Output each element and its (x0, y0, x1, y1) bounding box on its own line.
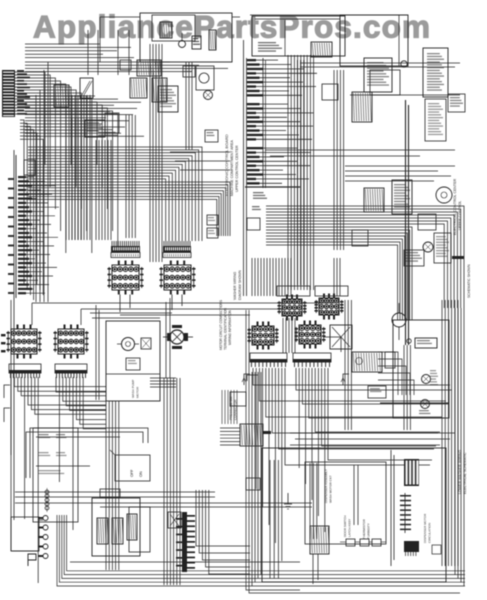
connector strip CN7 (9, 364, 41, 378)
connector CN3 pin block (108, 261, 144, 313)
svg-text:ELECTRONIC CONTROL BOARD: ELECTRONIC CONTROL BOARD (224, 134, 229, 196)
relay block G (168, 512, 195, 572)
element R3 hatched (127, 514, 137, 540)
motor M4 drain (392, 303, 406, 340)
connector CN5 pin block (7, 325, 42, 359)
svg-text:WASH MOTOR CKT: WASH MOTOR CKT (329, 475, 333, 503)
label E1 columns (324, 469, 371, 539)
wire nest BL top (26, 428, 148, 478)
svg-text:THERMISTOR: THERMISTOR (362, 518, 366, 539)
svg-text:MOTOR: MOTOR (136, 386, 140, 398)
box inner BR (262, 448, 446, 582)
svg-text:DISPENSER MOTOR: DISPENSER MOTOR (423, 513, 427, 543)
wire bundle BL mid verticals (106, 401, 119, 570)
box wash pump assembly (106, 321, 160, 401)
wire bundle TL mid horizontals (28, 147, 230, 241)
wire bundle TR vertical bus (288, 55, 314, 290)
wire bundle TL top horiz (25, 44, 228, 72)
wire loop nest BL (57, 515, 465, 586)
component D1 hatched (352, 352, 382, 372)
wire bus BR verticals2 (345, 100, 464, 430)
wire bundle BR drop1 (253, 368, 450, 561)
module D3 (415, 338, 438, 385)
module B8 (392, 180, 412, 214)
svg-text:AppliancePartsPros.com: AppliancePartsPros.com (33, 9, 430, 45)
wire bundle BL drop2 (56, 377, 106, 530)
label column P1 right (17, 70, 30, 115)
component F2 (100, 489, 120, 497)
component A4 hatched (152, 78, 167, 102)
wire staircase motor box (378, 352, 414, 395)
component A8 stack (207, 215, 218, 238)
component D4 (368, 386, 386, 398)
component D2 (385, 352, 395, 368)
switch S2 (80, 78, 93, 98)
label pump vertical (131, 380, 140, 398)
ladder E pins (400, 493, 411, 533)
motor M3 small (163, 325, 193, 349)
box control housing TL (140, 13, 232, 62)
module A1 (192, 36, 201, 49)
component E2 hatched (310, 526, 329, 554)
wire bundle TL box drops (88, 30, 192, 240)
wire bundle BR drop2 (296, 368, 452, 532)
wire top TL (100, 17, 240, 62)
component small mid (230, 392, 246, 406)
component B10 (418, 214, 451, 263)
svg-text:DOOR SWITCH: DOOR SWITCH (343, 515, 347, 537)
component B2 hatched (352, 92, 372, 122)
label TR vertical 2 (458, 201, 462, 230)
component B4 (322, 84, 338, 100)
connector strip CN8 (55, 364, 87, 378)
wire bus E verticals (310, 450, 394, 584)
component A10 (120, 60, 131, 70)
element R1 hatched (97, 518, 108, 544)
svg-text:MOTOR CIRCUIT CONNECTIONS: MOTOR CIRCUIT CONNECTIONS (219, 300, 223, 350)
fan component (330, 325, 352, 349)
module B5 (423, 48, 448, 141)
connector strip CN14 (293, 353, 331, 367)
connector CN4 pin block (160, 261, 196, 311)
capacitor C2 (401, 61, 407, 67)
connector CN11 pin block (248, 322, 279, 350)
component B6 (448, 94, 465, 112)
wire bundle TL inner vert (72, 115, 135, 240)
component pump sub (126, 358, 140, 370)
GND symbol (284, 493, 292, 509)
wire left edge bus (11, 150, 39, 551)
wire hook arrows mid (242, 374, 349, 385)
label TR vertical 3 (467, 264, 471, 298)
label K3 vertical (229, 396, 238, 420)
svg-text:LOWER WASHER WIRING: LOWER WASHER WIRING (458, 450, 462, 494)
svg-text:UPPER CONTROL: UPPER CONTROL (458, 201, 462, 230)
svg-text:TERMINAL IDENTIFICATION: TERMINAL IDENTIFICATION (224, 307, 228, 350)
component A5 (85, 120, 105, 137)
switch contacts column (38, 516, 48, 559)
motor M1 small (204, 91, 213, 100)
svg-text:OFF: OFF (130, 469, 134, 477)
label off (130, 469, 143, 477)
label TR vertical 1 (453, 178, 457, 235)
box BL switch region (11, 517, 43, 551)
box heater cluster (92, 498, 140, 556)
wire TL right horiz (170, 152, 230, 170)
component B1 hatched (311, 42, 332, 57)
component A3 hatched (130, 78, 147, 98)
box above CN upper right (277, 286, 348, 296)
terminal label column TR (245, 58, 317, 188)
connector strip CN1 (111, 241, 140, 258)
element R2 hatched (112, 518, 123, 544)
wire bundle BL right verticals (196, 490, 250, 574)
wire bundle TR horiz top (265, 63, 460, 181)
label E vertical (423, 513, 432, 543)
svg-text:ON: ON (139, 471, 143, 477)
component B12 (404, 250, 424, 266)
wire pump feeds (90, 305, 172, 400)
box motor assembly (393, 320, 449, 418)
component E5 (340, 539, 386, 546)
motor M5 (380, 375, 449, 415)
relay K1 (160, 22, 172, 38)
svg-text:UPPER CONTROL CENTER: UPPER CONTROL CENTER (235, 145, 239, 192)
timer B7 (436, 187, 452, 203)
pin stubs left (1, 334, 6, 352)
component pump aux (141, 338, 151, 349)
label BR vertical (458, 450, 467, 494)
wire hook CN13 (247, 375, 258, 381)
terminal label column TL left (8, 155, 59, 298)
capacitor C1 (179, 33, 186, 48)
wire bundle TL fan down (20, 120, 43, 300)
relay K2 (158, 86, 178, 112)
component A7 (205, 130, 218, 142)
label electronic control vertical (224, 134, 239, 196)
svg-text:ELECTRICAL SCHEMATIC: ELECTRICAL SCHEMATIC (463, 452, 467, 494)
wire loop nest BR (246, 308, 464, 593)
svg-text:WIRING INFORMATION: WIRING INFORMATION (228, 309, 232, 345)
box R right (129, 507, 150, 552)
connector CN9 pin block (278, 295, 307, 321)
capacitor C3 (407, 339, 411, 343)
component A2 (209, 30, 216, 50)
box inner BR2 (270, 460, 386, 578)
component E small right (432, 545, 441, 554)
svg-text:MACHINE COMPARTMENT AREA: MACHINE COMPARTMENT AREA (230, 139, 234, 196)
box TR right housing (340, 15, 408, 95)
connector CN12 pin block (295, 321, 326, 349)
wire mid cross A (32, 303, 335, 325)
svg-text:WASH PUMP: WASH PUMP (131, 380, 135, 398)
wire bundle TL horizontals upper (25, 96, 144, 136)
connector E3 dark (404, 459, 419, 486)
wire TR left long verticals (244, 40, 247, 296)
svg-text:SCHEMATIC SHOWN: SCHEMATIC SHOWN (467, 264, 471, 298)
connector CN10 pin block (315, 294, 344, 320)
connector E4 dark (404, 541, 419, 556)
wire bundle between CN blocks (283, 318, 295, 353)
svg-text:ELECTRICAL CONTROL CENTER: ELECTRICAL CONTROL CENTER (453, 178, 457, 235)
component B11 (352, 230, 368, 246)
relay K3 hatched (220, 390, 271, 446)
fuse F1 (45, 488, 49, 512)
component A9 (137, 60, 214, 90)
wire horiz BR inner top (290, 433, 455, 445)
svg-text:WASHER WIRING: WASHER WIRING (233, 271, 237, 300)
component F3 small (246, 478, 260, 490)
pressure switch symbol (28, 554, 36, 566)
wire top TR (250, 15, 408, 19)
wire TL long v (36, 62, 48, 302)
wire bundle TL verticals (66, 95, 90, 240)
box inner housing (152, 15, 195, 41)
label row TR top (258, 42, 282, 52)
component A6 (105, 113, 119, 133)
connector CN6 pin block (54, 325, 89, 359)
box console switch (33, 428, 78, 522)
label row TL (98, 129, 118, 136)
wire bundle BL drop1 (11, 377, 106, 583)
component B9 hatched (364, 188, 384, 212)
svg-text:DISPENSER ASSEMBLY: DISPENSER ASSEMBLY (324, 469, 328, 503)
label TL lower vertical (233, 270, 242, 300)
pump motor P (117, 338, 139, 351)
switch S1 (54, 85, 69, 107)
connector strip CN2 (163, 241, 191, 258)
wire hooks left (4, 385, 10, 422)
box control housing TR (252, 16, 345, 56)
svg-text:CIRCULATION: CIRCULATION (428, 523, 432, 543)
wire bundle TR-BR drop (252, 258, 341, 352)
wire bus BR right verticals (442, 300, 458, 566)
wire center bus vertical (150, 240, 180, 585)
svg-text:LATCH ASSY: LATCH ASSY (348, 519, 352, 537)
svg-text:CONNECTOR: CONNECTOR (234, 399, 238, 420)
wire bundle mid horizontals (150, 378, 176, 387)
label smudges TR mid (247, 192, 267, 230)
label column mid vertical (219, 300, 232, 350)
svg-text:TURBIDITY: TURBIDITY (367, 523, 371, 539)
watermark AppliancePartsPros.com (33, 9, 430, 45)
wire fan from P1 (15, 72, 118, 253)
wire horizontals BL lower (15, 492, 312, 507)
box OFF switch (110, 450, 150, 481)
module B3 (364, 58, 392, 92)
wire mid cross B (120, 314, 250, 316)
wire bundle TR staircase (266, 206, 464, 320)
wire bundle TR vertical bus2 (334, 70, 344, 250)
svg-text:DIAGRAM SHOWN: DIAGRAM SHOWN (238, 270, 242, 300)
connector P1 left edge block (2, 70, 15, 117)
motor M2 (423, 242, 433, 252)
connector strip CN13 (250, 353, 287, 367)
